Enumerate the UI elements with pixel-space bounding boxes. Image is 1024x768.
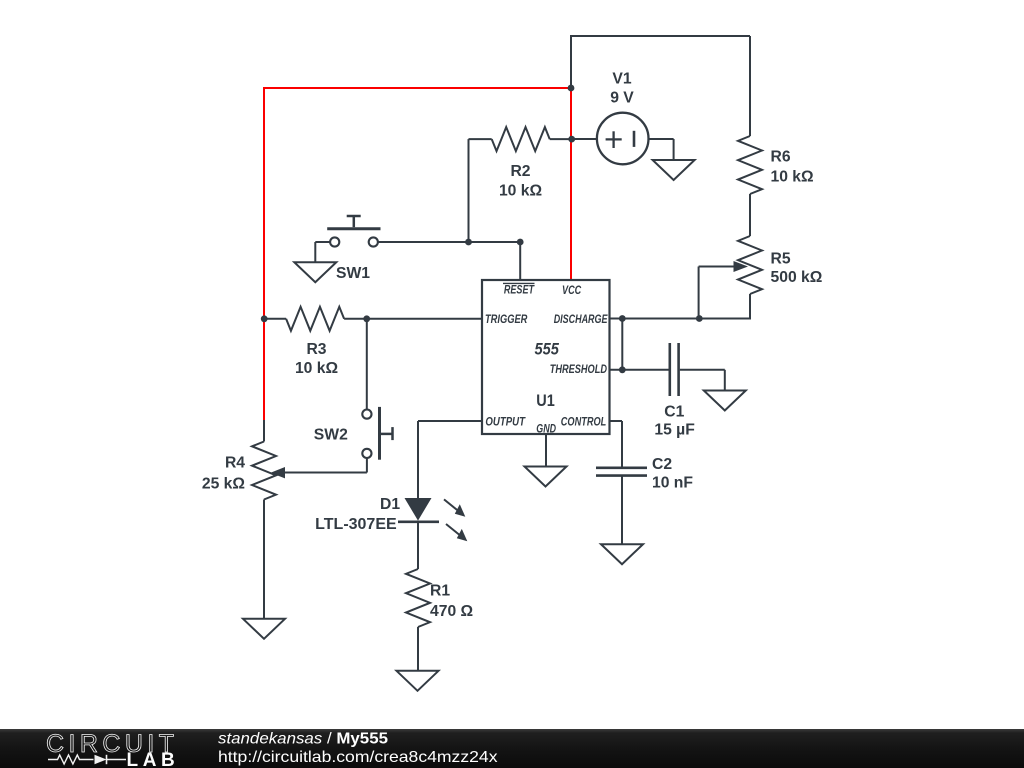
svg-text:OUTPUT: OUTPUT [485, 415, 526, 429]
svg-text:10 nF: 10 nF [652, 475, 693, 492]
svg-text:V1: V1 [612, 71, 631, 88]
svg-text:LTL-307EE: LTL-307EE [315, 516, 397, 533]
svg-text:R6: R6 [771, 149, 791, 166]
svg-text:555: 555 [535, 341, 560, 359]
svg-text:SW2: SW2 [314, 427, 348, 444]
svg-text:U1: U1 [536, 392, 555, 410]
svg-text:standekansas / My555: standekansas / My555 [218, 731, 388, 748]
svg-text:DISCHARGE: DISCHARGE [554, 312, 609, 326]
svg-text:R2: R2 [510, 163, 530, 180]
svg-text:R5: R5 [771, 250, 791, 267]
svg-text:500 kΩ: 500 kΩ [771, 269, 823, 286]
svg-text:THRESHOLD: THRESHOLD [550, 362, 608, 376]
svg-text:R4: R4 [225, 455, 245, 472]
svg-text:R3: R3 [306, 341, 326, 358]
svg-text:VCC: VCC [562, 283, 581, 297]
svg-text:SW1: SW1 [336, 265, 370, 282]
svg-text:10 kΩ: 10 kΩ [499, 183, 542, 200]
svg-text:C2: C2 [652, 456, 672, 473]
svg-text:CONTROL: CONTROL [561, 415, 606, 429]
svg-text:470 Ω: 470 Ω [430, 603, 473, 620]
svg-text:GND: GND [536, 422, 556, 436]
svg-text:25 kΩ: 25 kΩ [202, 476, 245, 493]
svg-text:C1: C1 [664, 404, 684, 421]
svg-text:LAB: LAB [127, 750, 180, 768]
svg-text:D1: D1 [380, 496, 400, 513]
svg-text:R1: R1 [430, 583, 450, 600]
svg-text:9 V: 9 V [610, 90, 634, 107]
svg-text:15 µF: 15 µF [654, 422, 695, 439]
svg-text:10 kΩ: 10 kΩ [295, 360, 338, 377]
svg-text:10 kΩ: 10 kΩ [771, 169, 814, 186]
svg-text:TRIGGER: TRIGGER [485, 312, 528, 326]
svg-text:http://circuitlab.com/crea8c4m: http://circuitlab.com/crea8c4mzz24x [218, 749, 498, 766]
svg-text:RESET: RESET [504, 283, 535, 297]
